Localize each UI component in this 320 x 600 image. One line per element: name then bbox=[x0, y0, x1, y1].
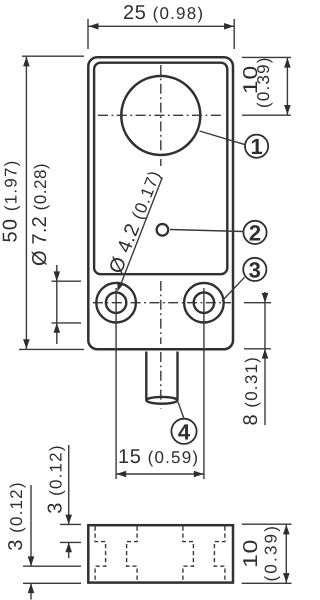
body inner face outline bbox=[94, 63, 227, 275]
dimension 10 top arrow down bbox=[284, 105, 291, 115]
dimension 3 top line lower tail bbox=[68, 542, 70, 558]
dimension 3 top tick upper bbox=[60, 523, 81, 525]
svg-text:(0.39): (0.39) bbox=[261, 524, 280, 582]
svg-text:3: 3 bbox=[249, 257, 261, 282]
dimension 3 bottom line lower tail bbox=[30, 583, 32, 599]
dimension 3 top tick lower bbox=[60, 541, 81, 543]
right mounting hole inner bbox=[194, 293, 214, 313]
dimension 8 line upper tail bbox=[264, 292, 266, 303]
left hole vertical line / 15-dim extension bbox=[115, 288, 117, 479]
cable right side bbox=[176, 352, 178, 400]
cable left side bbox=[145, 352, 147, 400]
dimension 3 top arrow down bbox=[65, 515, 72, 525]
svg-text:(0.39): (0.39) bbox=[254, 56, 273, 108]
svg-text:4: 4 bbox=[178, 420, 191, 445]
svg-text:Ø 4.2 (0.17): Ø 4.2 (0.17) bbox=[105, 166, 166, 276]
dimension 3 bottom arrow up bbox=[28, 583, 35, 593]
sensing circle horizontal centerline bbox=[98, 114, 224, 116]
left hole right half profile bbox=[127, 527, 138, 582]
center vertical dash-dot below body bbox=[160, 352, 162, 409]
dimension 10 bottom extension lower bbox=[242, 582, 292, 584]
right hole right half profile bbox=[214, 527, 225, 582]
dimension 10 bottom line bbox=[285, 525, 287, 583]
right hole left half profile bbox=[183, 527, 194, 582]
dimension 8 tick top bbox=[244, 302, 271, 304]
dimension 3 bottom tick lower bbox=[23, 582, 81, 584]
svg-text:3 (0.12): 3 (0.12) bbox=[5, 481, 27, 551]
dimension 3 bottom tick upper bbox=[23, 565, 81, 567]
body outline bbox=[88, 57, 233, 349]
left mounting hole inner bbox=[106, 293, 126, 313]
right hole vertical line / 15-dim extension bbox=[203, 288, 205, 479]
svg-text:8 (0.31): 8 (0.31) bbox=[240, 356, 262, 426]
dimension 25 line bbox=[89, 25, 234, 27]
dimension 50 line bbox=[25, 57, 27, 349]
svg-text:3 (0.12): 3 (0.12) bbox=[44, 444, 66, 514]
dimension 7.2 arrow up bbox=[54, 323, 61, 333]
dimension 7.2 line bbox=[56, 265, 58, 344]
dimension 10 bottom arrow down bbox=[283, 573, 290, 583]
cable end ellipse bbox=[146, 397, 177, 404]
callout 1 circle bbox=[245, 135, 268, 158]
dimension 10 bottom extension upper bbox=[242, 523, 292, 525]
dimension 25 arrow right bbox=[224, 23, 234, 30]
dimension 8 arrow up bbox=[262, 349, 269, 359]
right mounting hole outer bbox=[184, 283, 224, 323]
dimension 3 top arrow up bbox=[65, 542, 72, 552]
svg-text:15 (0.59): 15 (0.59) bbox=[118, 446, 199, 468]
callout 3 leader bbox=[222, 277, 245, 301]
dimension 8 line lower tail bbox=[264, 349, 266, 425]
callout 4 circle bbox=[171, 419, 196, 444]
dimension 7.2 tick top bbox=[52, 280, 82, 282]
svg-text:2: 2 bbox=[249, 220, 261, 245]
dimension 10 top line bbox=[286, 58, 288, 115]
dimension 25 arrow left bbox=[89, 23, 99, 30]
svg-text:50 (1.97): 50 (1.97) bbox=[0, 159, 22, 242]
dimension 50 extension top bbox=[22, 55, 84, 57]
callout 1 leader bbox=[200, 131, 245, 145]
dimension 50 arrow top bbox=[23, 57, 30, 67]
dimension 8 arrow down bbox=[262, 293, 269, 303]
dimension 3 bottom line upper bbox=[30, 485, 32, 566]
bottom view hidden profiles bbox=[95, 527, 225, 582]
callout 3 circle bbox=[243, 258, 266, 281]
svg-text:Ø 7.2 (0.28): Ø 7.2 (0.28) bbox=[29, 163, 51, 266]
dimension 15 line bbox=[117, 473, 204, 475]
sensing circle vertical centerline bbox=[160, 65, 162, 166]
dimension 7.2 tick bottom bbox=[52, 322, 82, 324]
dimension 50 extension bottom bbox=[19, 348, 84, 350]
center vertical dash-dot between holes bbox=[160, 281, 162, 344]
dimension 8 tick bottom bbox=[244, 348, 271, 350]
hole centerline horizontal bbox=[93, 302, 231, 304]
LED indicator circle bbox=[157, 224, 169, 236]
dimension 25 extension left bbox=[87, 19, 89, 49]
dimension 10 top extension lower bbox=[242, 114, 291, 116]
dimension 3 top line upper bbox=[68, 445, 70, 524]
label 4.2 arrow bbox=[117, 281, 124, 291]
dimension 15 arrow right bbox=[194, 471, 204, 478]
dimension 10 bottom arrow up bbox=[283, 525, 290, 535]
dimension 7.2 arrow down bbox=[54, 271, 61, 281]
dimension 15 arrow left bbox=[116, 471, 126, 478]
callout 2 circle bbox=[243, 221, 266, 244]
dimension 10 top arrow up bbox=[284, 58, 291, 68]
bottom view outline bbox=[88, 525, 233, 582]
left mounting hole outer bbox=[96, 283, 136, 323]
dimension 8 line middle bbox=[264, 303, 266, 349]
label 4.2 leader bbox=[120, 178, 163, 288]
sensing face circle bbox=[121, 76, 200, 155]
dimension 25 extension right bbox=[233, 19, 235, 49]
callout 2 leader bbox=[170, 230, 243, 232]
dimension 10 top extension upper bbox=[242, 56, 291, 58]
svg-text:25 (0.98): 25 (0.98) bbox=[123, 2, 204, 24]
left hole left half profile bbox=[95, 527, 106, 582]
dimension 50 arrow bottom bbox=[23, 339, 30, 349]
callout 4 leader bbox=[178, 402, 184, 419]
svg-text:1: 1 bbox=[250, 134, 262, 159]
svg-text:10: 10 bbox=[240, 539, 262, 568]
dimension 3 bottom arrow down bbox=[28, 556, 35, 566]
